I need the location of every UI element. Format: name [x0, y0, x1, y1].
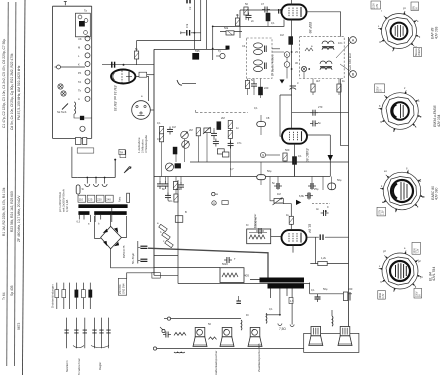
wire tube feed top [240, 10, 282, 38]
dial lamp La1 [58, 84, 63, 89]
svg-text:2M: 2M [189, 128, 193, 132]
svg-text:C1 47p, C2 120p, C3 10n, C4 2n: C1 47p, C2 120p, C3 10n, C4 2n2, C5 47n,… [2, 39, 6, 128]
phono zigzag a [174, 332, 186, 335]
socket EAF89 name [431, 26, 439, 39]
socket EL84 pin numbers [379, 247, 423, 293]
svg-text:15k: 15k [176, 187, 181, 191]
IF1 coil top [254, 43, 267, 55]
brace group b [91, 346, 109, 348]
wire DIN to main vertical [150, 109, 154, 111]
svg-text:0,5: 0,5 [157, 137, 161, 141]
input cluster stub wires [160, 120, 230, 197]
svg-text:1,2k: 1,2k [321, 256, 327, 260]
svg-text:1M: 1M [277, 192, 281, 196]
svg-text:A: A [78, 97, 80, 101]
filter cap C50a [138, 246, 148, 248]
svg-text:Netzteil 1: Netzteil 1 [65, 360, 69, 372]
TA label box [119, 149, 125, 154]
legend column 3 text [17, 65, 21, 330]
cap under IF1 [251, 81, 257, 89]
wire EM34 top feed [136, 41, 138, 65]
svg-text:Außenlautsprecher: Außenlautsprecher [214, 351, 218, 375]
socket EABC80 name [431, 186, 439, 200]
svg-text:Tp: Tp [84, 9, 88, 13]
socket EM34 box TL [375, 84, 385, 93]
dark res under EABC [292, 157, 296, 165]
res under IF2 b [337, 84, 341, 92]
svg-text:EBF 89: EBF 89 [308, 22, 312, 33]
socket EAF89 box TL [371, 1, 381, 9]
coil below bus [174, 351, 185, 354]
volume pot output [273, 198, 284, 206]
terminal circle right [216, 53, 225, 58]
filter cap feed [137, 241, 139, 264]
resistor above k dark [289, 37, 293, 45]
speaker SP2 [220, 328, 234, 347]
phono coil vert a [240, 320, 243, 330]
svg-text:ZF 460 kHz, 10,7 MHz, 20 kΩ/V: ZF 460 kHz, 10,7 MHz, 20 kΩ/V [17, 195, 21, 242]
IF1 coil bottom [254, 60, 267, 72]
input resistor Rc [196, 128, 200, 136]
bridge rectifier Gr1 [101, 226, 122, 249]
bottom box labels [77, 148, 94, 153]
trimmer cap [290, 86, 296, 90]
ladder coil [74, 102, 76, 114]
capsule comp a [257, 122, 266, 127]
svg-text:220: 220 [348, 287, 353, 291]
transformer tap boxes [78, 195, 113, 202]
pot circle [166, 163, 174, 171]
wire clip lead [182, 83, 196, 85]
svg-text:225V: 225V [377, 86, 379, 92]
wire ladder right rail [91, 6, 93, 138]
svg-text:6,3V 1,9A: 6,3V 1,9A [65, 200, 69, 212]
dial lamp La2 [61, 91, 66, 96]
phono terminal a [164, 317, 171, 320]
terminal circle y194 [212, 192, 218, 195]
transformer tap labels [79, 197, 112, 201]
frame bottom y283 [178, 283, 310, 285]
svg-text:6,3: 6,3 [77, 221, 81, 224]
svg-text:C2: C2 [188, 6, 192, 10]
wire EL84 grid up [283, 204, 291, 230]
svg-text:50µ: 50µ [267, 169, 272, 173]
svg-text:20kΩ/V: 20kΩ/V [419, 48, 421, 56]
svg-text:0,1: 0,1 [271, 21, 275, 25]
transformer winding end box [127, 193, 130, 202]
switch contact row [85, 36, 90, 101]
svg-text:R23 56k, R24 1k2, R25 680: R23 56k, R24 1k2, R25 680 [10, 191, 14, 232]
cap y33 [181, 30, 201, 36]
input resistor Ra [159, 127, 163, 135]
svg-text:230V: 230V [416, 291, 418, 297]
horizontal bus y49 [154, 48, 228, 50]
res horizontal y202 [222, 201, 228, 205]
svg-text:B: B [185, 210, 187, 214]
zigzag wave [305, 48, 313, 51]
legend rule line 2 [15, 2, 16, 366]
svg-text:47n: 47n [237, 141, 242, 145]
ground triangle mid [280, 80, 285, 84]
svg-text:EABC 80: EABC 80 [305, 149, 309, 163]
component value labels [135, 2, 353, 326]
tone res Rt2 [174, 194, 178, 202]
wires from output transformer down [270, 289, 292, 325]
anode branch down [310, 237, 348, 263]
dark res under IF1 [258, 87, 262, 95]
svg-text:TA: TA [120, 150, 124, 154]
electrolytic right [328, 183, 336, 190]
svg-text:k: k [286, 53, 288, 57]
selector drop 3 [102, 177, 107, 187]
wire y31 [220, 31, 242, 33]
legend column 1 text [2, 39, 6, 300]
B+ bus y248 [148, 248, 268, 277]
pot circle 2 [182, 141, 190, 149]
wire EBF down [291, 0, 293, 128]
socket EM34 view [379, 90, 422, 131]
switch S1 [62, 104, 68, 110]
socket EL84 box TR [412, 242, 421, 254]
tuner dark slug [79, 21, 85, 27]
legend rule line 1 [7, 2, 8, 366]
res cap pair bottom right [343, 292, 350, 301]
wire y112 [292, 112, 349, 114]
cap right mid a [310, 110, 318, 116]
svg-text:5V: 5V [419, 294, 421, 297]
wire ladder to fuse [72, 147, 78, 178]
wire antenna [61, 66, 86, 68]
bus y162 [190, 161, 349, 163]
dark res top [217, 122, 221, 130]
circled A [350, 37, 357, 44]
selector drop 1 [85, 177, 90, 187]
svg-text:270: 270 [318, 105, 323, 109]
svg-text:C8: C8 [266, 116, 270, 120]
svg-text:1,8V: 1,8V [377, 3, 379, 8]
DIN legend text [137, 135, 148, 153]
svg-text:EM 34 od. EM 35: EM 34 od. EM 35 [113, 86, 117, 112]
svg-text:K: K [78, 63, 80, 67]
coupling diode dark [296, 200, 301, 205]
wire bridge out bottom [111, 249, 154, 268]
top vertical v213 [212, 26, 214, 60]
resistor horizontal rh1 [226, 31, 234, 35]
wire EBF right [307, 12, 341, 37]
svg-text:Messw: Messw [416, 48, 418, 55]
input cap Cc [211, 131, 217, 139]
svg-text:Dr: Dr [246, 313, 249, 317]
speaker SP1 [193, 328, 207, 347]
svg-text:0,1: 0,1 [269, 307, 273, 311]
pin header 1 [55, 283, 92, 309]
ground clip [177, 80, 182, 85]
selector label box [120, 151, 126, 158]
capsule comp b [257, 175, 266, 180]
socket EM34 pin numbers [379, 87, 422, 133]
svg-text:m: m [379, 41, 381, 44]
wire ladder top [53, 5, 92, 7]
wire y135 [305, 135, 330, 177]
input cap Ca [167, 127, 173, 135]
legend border line [23, 0, 26, 375]
svg-text:25µ: 25µ [314, 187, 319, 191]
cap top edge [187, 0, 190, 3]
small res right drop [289, 298, 293, 304]
midfield cap c2 [262, 7, 270, 13]
lower mid caps y182-190 [274, 183, 282, 189]
svg-text:Sk.Tonb: Sk.Tonb [57, 110, 67, 114]
hook connector a [278, 324, 282, 326]
svg-text:Drahtverbindungen: Drahtverbindungen [51, 284, 55, 308]
junction blob y47 [226, 46, 230, 50]
svg-text:C4: C4 [242, 44, 246, 48]
wire comp b [74, 114, 92, 118]
dark cap C41 [175, 163, 181, 168]
vertical v340 lower [341, 79, 349, 146]
transformer spec text [58, 189, 69, 212]
slant resistor S2 [162, 232, 171, 239]
stub y255 [154, 254, 178, 256]
trimmer pot box [203, 127, 211, 134]
res under IF1 a [245, 81, 249, 89]
svg-text:0V: 0V [416, 7, 418, 10]
svg-text:TA: TA [78, 80, 81, 84]
svg-text:210V: 210V [374, 3, 376, 9]
svg-text:Cd 5n, Ce 10n, Cf 25µ, Cg 50µ,: Cd 5n, Ce 10n, Cf 25µ, Cg 50µ, R21 2M2, … [10, 53, 14, 130]
junction dots v291 [291, 51, 293, 70]
power transformer fuse [76, 185, 84, 194]
bottom bus y348 [157, 348, 304, 350]
svg-text:50µ: 50µ [337, 178, 342, 182]
filter cap C50b [138, 259, 148, 261]
svg-text:0,1: 0,1 [254, 106, 258, 110]
svg-text:Tr 64: Tr 64 [2, 292, 6, 300]
tone box [175, 216, 183, 223]
svg-text:1V: 1V [381, 89, 383, 92]
svg-text:EL 84: EL 84 [308, 224, 312, 233]
svg-text:50µ: 50µ [323, 287, 328, 291]
wire bottom transformer area [127, 273, 152, 279]
speaker SP3 [248, 328, 262, 347]
svg-text:Tonabnehmer: Tonabnehmer [77, 358, 81, 375]
dark blob component [192, 53, 199, 60]
bottom right wire y294 [310, 293, 352, 295]
socket EL84 box BL [378, 291, 386, 300]
coil circle [80, 126, 85, 131]
svg-text:Zweitlautsprecher 405: Zweitlautsprecher 405 [257, 343, 261, 372]
top vertical v200 [200, 0, 202, 41]
electrolytic under transformer [236, 296, 241, 303]
svg-text:1M: 1M [172, 125, 176, 129]
speaker SP4 [309, 327, 323, 346]
tube EL84 [282, 230, 307, 245]
legend column 2 text [10, 53, 14, 296]
hook connector b [290, 325, 294, 327]
transformer core bar 2 [78, 211, 126, 215]
tube EBF89 [282, 5, 307, 20]
res under IF2 a [311, 84, 315, 92]
wire bridge feed [95, 215, 127, 238]
cap cluster b [308, 183, 316, 189]
cap right mid b [310, 120, 318, 126]
res mid top [228, 121, 232, 129]
tone cap Ct1b [163, 181, 169, 189]
wire from tube left down [256, 20, 284, 27]
bus terminal circle [153, 347, 156, 350]
resistor anode horizontal [318, 261, 327, 265]
circled B [350, 71, 357, 78]
phono coil vert b [265, 313, 268, 323]
boxes under EABC [283, 153, 287, 161]
svg-text:1,2V: 1,2V [382, 210, 384, 215]
svg-text:405: 405 [244, 274, 249, 278]
antenna terminal [55, 65, 61, 69]
svg-text:5020: 5020 [222, 262, 228, 266]
phono terminal b [160, 327, 165, 333]
svg-text:Sp 405: Sp 405 [10, 285, 14, 296]
svg-text:0,1: 0,1 [298, 154, 302, 158]
socket EAF89 box TR [411, 2, 419, 11]
svg-text:4,7: 4,7 [230, 167, 234, 171]
phono line [171, 318, 241, 320]
resistor above EL84 [289, 216, 293, 224]
speaker SP5 [338, 327, 352, 346]
IF2 coil top [322, 41, 334, 50]
wire y64.7 [102, 64, 154, 66]
wire EABC down [294, 144, 296, 177]
bus y176.5 [154, 176, 330, 178]
input cap Cd [213, 139, 219, 147]
antenna stub top [64, 2, 67, 6]
cap ticks left of tube [279, 9, 281, 14]
svg-text:500: 500 [285, 148, 290, 152]
socket EAF89 view [378, 11, 419, 51]
svg-text:4JV 034: 4JV 034 [437, 114, 441, 127]
box mid [223, 152, 229, 157]
svg-text:UK: UK [78, 37, 82, 41]
svg-text:220: 220 [264, 86, 269, 90]
midfield res r2 [244, 7, 248, 15]
electrolytic bottom right [315, 294, 321, 302]
brace group a [73, 346, 84, 348]
svg-text:ZF Durchl. 460kHz: ZF Durchl. 460kHz [271, 54, 275, 76]
transformer core bar 1 [78, 204, 127, 208]
midfield dark res [266, 13, 270, 21]
tone cap Ct1 [157, 181, 163, 189]
frame vertical x178 [177, 180, 179, 284]
svg-text:10n: 10n [338, 41, 343, 45]
wire ladder bottom merge [53, 137, 92, 139]
stub y275 [154, 274, 178, 276]
terminal circle G y203 [212, 201, 216, 206]
wire y26 [213, 25, 256, 27]
junction dots v213 [212, 26, 214, 50]
feedback network box [247, 229, 271, 244]
svg-text:tr: tr [297, 81, 299, 85]
phono zigzag b [209, 337, 217, 340]
bottom box pair 1 [76, 138, 82, 145]
svg-text:M: M [78, 46, 80, 50]
dashed lead [312, 203, 330, 205]
slant resistor S1 [159, 224, 168, 231]
socket EABC80 view [380, 170, 424, 212]
svg-text:5S5: 5S5 [195, 49, 200, 53]
midfield resistor r1 [235, 18, 239, 26]
dashed chassis line [196, 110, 248, 113]
cap mid pair [228, 141, 234, 149]
wire EL84 in [271, 236, 282, 238]
svg-text:Netz: Netz [117, 196, 121, 202]
anode coupling cap [307, 210, 349, 240]
svg-text:0,3V: 0,3V [383, 293, 385, 298]
midfield cap c1 [246, 13, 252, 21]
caps above EL84 [305, 193, 313, 199]
dark comp b [80, 116, 84, 120]
socket EL84 view [379, 251, 421, 292]
circled k [284, 52, 290, 58]
tube EABC80 [282, 129, 307, 144]
svg-text:125: 125 [88, 197, 93, 201]
svg-text:6,8k: 6,8k [299, 194, 305, 198]
pin labels [65, 358, 102, 375]
IF2 coil bottom [320, 61, 332, 70]
wire tube to DIN [135, 77, 148, 102]
svg-text:FM 87,5-100 MHz, AM 510-1620 k: FM 87,5-100 MHz, AM 510-1620 kHz [17, 65, 21, 120]
wire top bus y40 [137, 40, 201, 42]
svg-text:9673: 9673 [17, 322, 21, 330]
output transformer dark bar [250, 278, 304, 289]
frame drop right [309, 283, 311, 294]
cap right of EL84 [321, 210, 329, 216]
svg-text:95V: 95V [413, 5, 415, 10]
svg-text:50+50µF: 50+50µF [131, 253, 135, 264]
IF can 2 dashed box [300, 37, 345, 79]
socket EL84 name [429, 267, 437, 281]
series capacitor C30 [112, 62, 115, 68]
pot circle 1 [181, 131, 189, 139]
small box right [217, 149, 224, 154]
EL84 cathode drop [292, 245, 294, 253]
socket EM34 name [433, 105, 441, 127]
svg-text:3 Wiedergabe: 3 Wiedergabe [144, 135, 148, 153]
svg-text:GN2 0N4: GN2 0N4 [122, 283, 125, 294]
misc connection stubs [238, 14, 340, 203]
socket EABC80 box BL [377, 207, 386, 216]
FM tuner box [76, 13, 91, 37]
svg-text:0,1: 0,1 [157, 121, 161, 125]
svg-text:170V: 170V [379, 209, 381, 215]
svg-text:Regler: Regler [98, 362, 102, 370]
svg-text:B250 C75: B250 C75 [122, 245, 126, 258]
svg-text:Ph: Ph [78, 71, 82, 75]
svg-text:220Ω: 220Ω [380, 293, 382, 299]
DIN socket TB [132, 101, 151, 120]
wire ladder left rail [52, 6, 54, 138]
dark caps mid [173, 147, 178, 155]
mains selector bus [78, 177, 116, 179]
socket EAF89 box BR [414, 48, 422, 57]
svg-text:56k: 56k [224, 26, 229, 30]
junction dot transformer drop [279, 314, 281, 316]
main vertical bus x154 [153, 49, 155, 275]
svg-text:4JVL 784: 4JVL 784 [432, 267, 436, 281]
switch arrow lower [124, 167, 131, 173]
switch row labels [78, 37, 82, 101]
socket EL84 box BR [414, 288, 422, 298]
svg-text:110: 110 [79, 197, 84, 201]
top vertical v194 [193, 0, 195, 49]
